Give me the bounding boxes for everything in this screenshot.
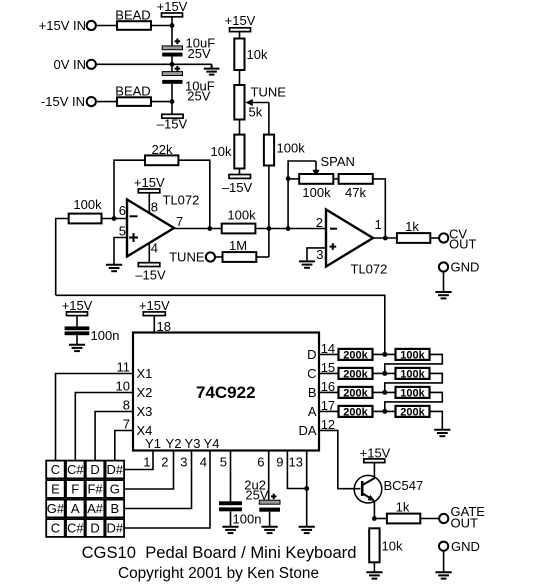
wire ladder step B: [385, 392, 443, 411]
resistor 1k (gate out): [387, 500, 420, 524]
svg-text:7: 7: [123, 417, 130, 432]
node junction -15V rail: [170, 99, 175, 104]
wire: [239, 169, 241, 175]
wire 47k to output: [373, 179, 386, 238]
svg-text:D: D: [90, 521, 99, 536]
svg-text:TL072: TL072: [351, 262, 388, 277]
svg-text:12: 12: [321, 417, 335, 432]
svg-text:17: 17: [321, 398, 335, 413]
pin 17 A wire: [319, 398, 339, 413]
svg-text:B: B: [111, 501, 120, 516]
wire op-amp1 + input to ground: [114, 238, 127, 265]
svg-text:D#: D#: [107, 462, 124, 477]
node junction ladder B: [382, 390, 387, 395]
svg-text:74C922: 74C922: [196, 383, 256, 402]
node junction 1M/100k vertical: [267, 226, 272, 231]
svg-text:100k: 100k: [277, 141, 306, 156]
wire ladder bottom to ground: [430, 411, 443, 429]
wire: [230, 511, 232, 526]
wire: [374, 518, 387, 520]
resistor 10k (lower middle): [211, 135, 245, 169]
ground (op-amp1 pin5): [106, 265, 122, 271]
keyswitch C# (row 4 col 2): [66, 519, 85, 537]
wire: [76, 316, 78, 327]
node junction ladder C: [382, 371, 387, 376]
wire ladder step D: [385, 354, 443, 373]
ground (10k pulldown): [366, 572, 382, 578]
wire: [171, 57, 173, 72]
svg-text:2: 2: [316, 215, 323, 230]
pin 1 Y1 wire: [124, 451, 153, 470]
svg-text:10k: 10k: [382, 539, 403, 554]
svg-text:5k: 5k: [249, 105, 263, 120]
svg-text:B: B: [308, 385, 317, 400]
wire: [239, 32, 241, 39]
capacitor 100n (bypass left): [65, 326, 120, 343]
svg-text:A: A: [308, 404, 317, 419]
svg-text:0V IN: 0V IN: [53, 57, 86, 72]
svg-text:TUNE: TUNE: [251, 85, 287, 100]
wire: [373, 410, 396, 412]
svg-text:25V: 25V: [187, 89, 210, 104]
svg-text:3: 3: [180, 455, 187, 470]
wire summing node: [255, 228, 326, 230]
keyswitch D (row 4 col 3): [86, 519, 105, 537]
pin 6 wire: [257, 451, 268, 501]
power symbol +15V (top): [157, 0, 188, 17]
svg-text:GND: GND: [451, 539, 480, 554]
power symbol +15V (BC547 collector): [360, 446, 391, 463]
keyswitch E (row 2 col 1): [46, 480, 64, 498]
svg-text:100k: 100k: [73, 197, 102, 212]
terminal GATE OUT: [439, 504, 485, 531]
svg-text:5: 5: [119, 224, 126, 239]
pin 5 wire: [220, 451, 231, 502]
wire DAC node (long): [56, 295, 385, 354]
svg-text:10k: 10k: [247, 47, 268, 62]
svg-text:C: C: [51, 462, 60, 477]
svg-text:BEAD: BEAD: [115, 83, 150, 98]
svg-text:5: 5: [220, 455, 227, 470]
pin 11 X1 wire: [56, 360, 134, 461]
wire: [373, 391, 396, 393]
resistor 200k (row D left): [339, 349, 373, 362]
power symbol -15V (middle column): [222, 175, 253, 196]
svg-text:DA: DA: [298, 423, 316, 438]
wire: [239, 70, 241, 85]
power symbol -15V (op-amp1 pin4): [135, 263, 166, 283]
keyswitch G# (row 3 col 1): [46, 500, 65, 518]
svg-text:1k: 1k: [405, 219, 419, 234]
svg-text:G: G: [110, 482, 120, 497]
wire emitter: [373, 501, 375, 519]
svg-text:47k: 47k: [345, 185, 366, 200]
pin 4 Y4 wire: [124, 451, 210, 529]
svg-text:BC547: BC547: [384, 478, 424, 493]
svg-text:3: 3: [316, 247, 323, 262]
wire pin 18: [153, 316, 155, 333]
node junction pins 9-13: [304, 486, 309, 491]
svg-text:200k: 200k: [343, 349, 368, 361]
node junction 0V: [170, 62, 175, 67]
wire op-amp1 input from long node wire: [56, 219, 69, 296]
svg-text:100k: 100k: [302, 185, 331, 200]
svg-text:8: 8: [151, 200, 158, 215]
terminal GND (lower): [439, 539, 480, 554]
keyswitch F (row 2 col 2): [66, 480, 85, 498]
resistor 200k (row A left): [339, 406, 373, 419]
wire feedback left leg: [114, 160, 145, 218]
node junction op-amp2 output: [383, 236, 388, 241]
svg-text:X3: X3: [137, 404, 153, 419]
capacitor 10uF 25V (upper): [162, 35, 215, 61]
op-amp U1b TL072: [316, 210, 388, 277]
terminal -15V IN: [41, 94, 96, 109]
svg-text:200k: 200k: [343, 406, 368, 418]
capacitor 2u2 25V: [244, 478, 280, 512]
svg-text:6: 6: [257, 455, 264, 470]
resistor 100k (row B right): [396, 387, 430, 400]
svg-text:200k: 200k: [343, 368, 368, 380]
svg-text:TL072: TL072: [163, 193, 200, 208]
resistor 1M: [223, 238, 257, 262]
svg-text:6: 6: [119, 203, 126, 218]
ground (0V): [204, 64, 220, 74]
ground (2u2): [262, 527, 278, 533]
svg-text:D: D: [90, 462, 99, 477]
wire: [239, 120, 241, 135]
svg-text:X1: X1: [137, 366, 153, 381]
resistor 100k (row C right): [396, 368, 430, 381]
svg-text:13: 13: [289, 455, 303, 470]
svg-text:–15V: –15V: [135, 268, 166, 283]
capacitor 100n (debounce): [219, 501, 261, 526]
wire: [171, 84, 173, 115]
terminal 0V IN: [53, 57, 95, 72]
svg-text:+15V: +15V: [134, 175, 165, 190]
keyswitch D# (row 4 col 4): [106, 519, 125, 537]
pin 15 C wire: [319, 360, 339, 375]
potentiometer TUNE 5k: [234, 85, 286, 120]
svg-text:BEAD: BEAD: [115, 7, 150, 22]
svg-text:TUNE: TUNE: [169, 250, 205, 265]
svg-text:–15V: –15V: [222, 180, 253, 195]
wire: [151, 25, 172, 27]
pin 16 B wire: [319, 379, 339, 394]
svg-text:Y4: Y4: [204, 436, 220, 451]
terminal TUNE: [169, 250, 215, 265]
terminal GND (upper): [439, 260, 479, 275]
svg-text:25V: 25V: [188, 46, 211, 61]
keyswitch G (row 2 col 4): [106, 480, 125, 498]
ground (ladder): [434, 430, 450, 436]
wire: [96, 101, 117, 103]
resistor 200k (row B left): [339, 387, 373, 400]
svg-text:C: C: [307, 366, 316, 381]
keyswitch B (row 3 col 4): [106, 500, 125, 518]
keyswitch D (row 1 col 3): [86, 461, 105, 479]
svg-text:D#: D#: [107, 521, 124, 536]
wire down to summing node: [268, 166, 270, 258]
wire collector: [373, 463, 375, 478]
node junction ladder D: [382, 352, 387, 357]
wire: [420, 518, 439, 520]
svg-text:Copyright 2001 by Ken Stone: Copyright 2001 by Ken Stone: [118, 565, 319, 582]
transistor Q1 BC547: [354, 475, 423, 503]
potentiometer SPAN 100k: [288, 154, 355, 200]
keyswitch A (row 3 col 2): [66, 500, 85, 518]
svg-text:+15V: +15V: [62, 298, 93, 313]
svg-text:1M: 1M: [229, 238, 247, 253]
wire: [102, 218, 128, 220]
wire ladder step C: [385, 373, 443, 392]
svg-text:200k: 200k: [343, 387, 368, 399]
power symbol +15V (middle column): [225, 13, 256, 32]
svg-text:1: 1: [375, 217, 382, 232]
resistor 100k (vertical): [264, 135, 305, 166]
wire pin 8: [148, 193, 150, 214]
resistor 100k (row D right): [396, 349, 430, 362]
ground (bypass left): [69, 345, 85, 351]
svg-text:11: 11: [117, 360, 131, 375]
node junction feedback: [286, 226, 291, 231]
svg-text:2: 2: [161, 455, 168, 470]
IC U2 74C922: [133, 333, 319, 452]
resistor 200k (row C left): [339, 368, 373, 381]
node junction op-amp1 output: [207, 226, 212, 231]
svg-text:100k: 100k: [400, 349, 425, 361]
svg-text:4: 4: [200, 455, 207, 470]
wire: [443, 272, 445, 292]
wire: [151, 101, 172, 103]
svg-text:G#: G#: [47, 501, 65, 516]
svg-text:GND: GND: [451, 260, 480, 275]
ferrite bead (BEAD) bottom: [115, 83, 151, 106]
wire op-amp2 output: [373, 237, 397, 239]
svg-text:Y2: Y2: [166, 436, 182, 451]
capacitor 10uF 25V (lower): [162, 66, 214, 104]
keyswitch A# (row 3 col 3): [86, 500, 105, 518]
wire: [76, 335, 78, 345]
resistor 1k (CV out): [397, 219, 430, 243]
pin 12 DA wire: [319, 417, 360, 489]
svg-text:8: 8: [123, 398, 130, 413]
wire: [443, 551, 445, 572]
terminal +15V IN: [39, 18, 96, 33]
svg-text:7: 7: [176, 214, 183, 229]
svg-text:–15V: –15V: [157, 117, 188, 132]
wire: [373, 353, 396, 355]
keyswitch C (row 1 col 1): [46, 461, 64, 479]
node junction op-amp1 inverting input: [112, 216, 117, 221]
power symbol +15V (100n bypass): [62, 298, 93, 316]
keyswitch D# (row 1 col 4): [106, 461, 125, 479]
svg-text:OUT: OUT: [449, 237, 477, 252]
svg-text:10: 10: [116, 379, 130, 394]
node junction span pot: [286, 176, 291, 181]
power symbol +15V (op-amp1 pin8): [134, 175, 165, 193]
svg-text:+15V: +15V: [139, 298, 170, 313]
svg-text:F: F: [71, 482, 79, 497]
wire: [430, 237, 439, 239]
pin 3 Y3 wire: [124, 451, 191, 509]
wire op-amp2 + input to ground: [307, 248, 326, 262]
op-amp U1a TL072: [119, 193, 200, 257]
svg-text:+15V: +15V: [157, 0, 188, 14]
resistor 100k (to summing node): [222, 208, 256, 234]
svg-text:100k: 100k: [400, 387, 425, 399]
svg-text:E: E: [51, 482, 60, 497]
wire: [269, 512, 271, 527]
wire: [215, 256, 223, 258]
pin 7 X4 wire: [115, 417, 133, 461]
ground (op-amp2 pin3): [299, 261, 315, 267]
wire: [373, 562, 375, 572]
power symbol -15V (top left): [157, 114, 188, 131]
pin 13 wire: [289, 451, 307, 527]
pin 9 wire: [276, 451, 306, 489]
keyswitch C# (row 1 col 2): [66, 461, 85, 479]
svg-text:C: C: [51, 521, 60, 536]
wire pin 4: [148, 243, 150, 263]
svg-text:+15V IN: +15V IN: [39, 18, 86, 33]
svg-text:CGS10 Pedal Board / Mini Keyb: CGS10 Pedal Board / Mini Keyboard: [82, 543, 357, 562]
svg-text:-15V IN: -15V IN: [41, 94, 85, 109]
svg-text:Y1: Y1: [145, 436, 161, 451]
pin 2 Y2 wire: [124, 451, 173, 490]
svg-text:+15V: +15V: [225, 13, 256, 28]
svg-text:X2: X2: [137, 385, 153, 400]
svg-text:15: 15: [321, 360, 335, 375]
svg-text:200k: 200k: [400, 406, 425, 418]
ground (below GND upper): [435, 292, 451, 298]
resistor 10k (upper middle): [234, 39, 268, 71]
wire op-amp1 output: [174, 228, 222, 230]
ferrite bead (BEAD) top: [115, 7, 151, 30]
svg-text:1k: 1k: [396, 500, 410, 515]
svg-text:9: 9: [276, 455, 283, 470]
wire span wiper return: [288, 161, 316, 179]
wire TUNE wiper to 100k: [268, 103, 270, 135]
svg-text:OUT: OUT: [451, 515, 479, 530]
svg-text:C#: C#: [67, 521, 84, 536]
svg-text:A: A: [71, 501, 80, 516]
pin 10 X2 wire: [75, 379, 133, 461]
svg-text:100k: 100k: [227, 208, 256, 223]
svg-text:100k: 100k: [400, 368, 425, 380]
node junction ladder A: [382, 409, 387, 414]
svg-text:D: D: [307, 347, 316, 362]
resistor 47k: [339, 174, 373, 200]
svg-text:F#: F#: [87, 482, 103, 497]
pin 8 X3 wire: [95, 398, 133, 461]
terminal CV OUT: [439, 227, 476, 252]
svg-text:10k: 10k: [211, 144, 232, 159]
wire: [373, 372, 396, 374]
svg-text:SPAN: SPAN: [321, 154, 355, 169]
svg-text:16: 16: [321, 379, 335, 394]
wire 0V line: [96, 63, 212, 65]
node junction +15V rail: [170, 23, 175, 28]
ground (100n debounce): [222, 527, 238, 533]
svg-text:A#: A#: [87, 501, 104, 516]
wire: [96, 25, 117, 27]
ground (below GND lower): [436, 572, 452, 578]
pin 14 D wire: [319, 341, 339, 356]
resistor 200k (row A right): [396, 406, 430, 419]
resistor 22k feedback: [145, 142, 178, 165]
wire span node vertical: [287, 179, 289, 229]
svg-text:100n: 100n: [233, 512, 262, 527]
svg-text:1: 1: [143, 455, 150, 470]
ground (pin 13): [299, 527, 315, 533]
svg-text:14: 14: [321, 341, 335, 356]
svg-text:4: 4: [151, 241, 158, 256]
wire +15V rail: [171, 17, 173, 46]
resistor 10k (pulldown): [369, 528, 403, 562]
keyswitch C (row 4 col 1): [46, 519, 64, 537]
svg-text:100n: 100n: [91, 328, 120, 343]
node junction emitter: [372, 516, 377, 521]
power symbol +15V (pin 18): [139, 298, 170, 316]
wire feedback right leg: [178, 160, 209, 228]
wire to 1M: [256, 256, 269, 258]
resistor 100k (op-amp1 input): [69, 197, 102, 223]
svg-text:C#: C#: [67, 462, 84, 477]
svg-text:Y3: Y3: [185, 436, 201, 451]
keyswitch F# (row 2 col 3): [86, 480, 105, 498]
wire: [333, 178, 338, 180]
